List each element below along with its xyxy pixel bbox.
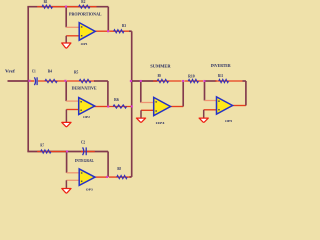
wire: derivative feedback right vertical bbox=[107, 81, 109, 107]
wire: OP2 output bbox=[94, 106, 108, 108]
svg-text:R6: R6 bbox=[114, 98, 119, 102]
wire: summer to inverter row bbox=[185, 80, 204, 82]
wire: proportional feedback right vertical bbox=[107, 7, 109, 32]
resistor R11 bbox=[219, 79, 229, 82]
wire: inverter feedback top to right vertical bbox=[243, 80, 246, 82]
svg-text:Vref: Vref bbox=[5, 68, 15, 73]
junction: OP3 output node bbox=[106, 176, 108, 178]
svg-text:DERIVATIVE: DERIVATIVE bbox=[72, 85, 97, 90]
op-amp OP5 bbox=[217, 97, 233, 114]
svg-text:R7: R7 bbox=[40, 143, 44, 147]
ground below OP4 bbox=[136, 118, 145, 122]
wire: OP3 output bbox=[95, 176, 109, 178]
svg-text:R5: R5 bbox=[74, 71, 78, 75]
wire: top row horizontal (R1/R2 node line) bbox=[27, 6, 108, 8]
wire: OP4 non-inverting input stub bbox=[141, 109, 154, 111]
wire: OP1 ground stem bbox=[65, 36, 67, 43]
wire: OP5 output bbox=[232, 105, 246, 107]
svg-text:R1: R1 bbox=[44, 0, 48, 4]
capacitor C1 bbox=[34, 77, 35, 85]
junction: Vref bus crossing bbox=[28, 80, 30, 82]
junction: R6 to collector bbox=[131, 105, 133, 107]
svg-text:INVERTER: INVERTER bbox=[211, 63, 232, 68]
svg-text:PROPORTIONAL: PROPORTIONAL bbox=[69, 11, 102, 16]
svg-text:R9: R9 bbox=[158, 74, 161, 78]
wire: OP5 non-inverting input stub bbox=[204, 109, 216, 111]
wire: OP2 inverting input branch bbox=[65, 81, 67, 101]
wire: integral feedback right vertical bbox=[107, 152, 109, 177]
wire: collector vertical (summing bus) bbox=[131, 31, 133, 177]
resistor R5 bbox=[79, 79, 91, 82]
wire: Vref horizontal bbox=[8, 80, 30, 82]
ground below OP1 bbox=[62, 43, 71, 48]
wire: OP1 output bbox=[95, 30, 109, 32]
svg-text:C2: C2 bbox=[81, 141, 85, 145]
op-amp OP3 bbox=[79, 169, 95, 186]
resistor R4 bbox=[45, 79, 57, 82]
resistor R3 bbox=[114, 30, 124, 33]
svg-text:OP1: OP1 bbox=[81, 42, 88, 46]
svg-text:SUMMER: SUMMER bbox=[150, 64, 171, 69]
resistor R7 bbox=[41, 150, 51, 153]
wire: integral top row horizontal bbox=[27, 151, 108, 153]
wire: OP3 ground stem bbox=[65, 180, 67, 188]
wire: OP4 inverting input branch bbox=[140, 81, 142, 103]
junction: integral input node bbox=[66, 150, 68, 152]
junction: R1/R2 node bbox=[65, 6, 67, 8]
wire: OP2 ground stem bbox=[65, 110, 67, 123]
junction: derivative input node bbox=[64, 80, 66, 82]
wire: main Vref bus vertical bbox=[27, 7, 29, 152]
resistor R9 bbox=[157, 79, 168, 82]
wire: red lead segments top row bbox=[37, 6, 65, 8]
wire: OP3 non-inverting input stub bbox=[66, 179, 79, 181]
svg-text:R4: R4 bbox=[48, 70, 52, 74]
wire: OP3 inverting input branch bbox=[66, 152, 68, 173]
wire: integral row red leads bbox=[37, 151, 66, 153]
wire: OP2 non-inverting input stub bbox=[66, 109, 79, 111]
wire: R8 row output to collector bbox=[109, 176, 131, 178]
wire: summer feedback vertical bbox=[182, 81, 184, 107]
junction: OP2 output node bbox=[107, 105, 109, 107]
resistor R6 bbox=[113, 105, 127, 108]
resistor R2 bbox=[79, 5, 90, 8]
op-amp OP2 bbox=[79, 98, 95, 115]
wire: R6 row output to collector bbox=[109, 106, 132, 108]
svg-text:C1: C1 bbox=[32, 69, 36, 73]
op-amp OP1 bbox=[79, 23, 95, 41]
junction: summer inverting node bbox=[140, 80, 142, 82]
capacitor C2 bbox=[83, 147, 84, 155]
junction: inverter input node bbox=[203, 80, 205, 82]
wire: OP4 ground stem bbox=[140, 110, 142, 118]
wire: OP5 ground stem bbox=[203, 110, 205, 118]
wire: OP1 inverting input branch bbox=[65, 7, 67, 28]
op-amp OP4 bbox=[154, 97, 171, 115]
ground below OP5 bbox=[199, 118, 208, 122]
junction: summer output node bbox=[182, 80, 184, 82]
wire: inverter feedback right vertical bbox=[245, 81, 247, 106]
wire: OP1 non-inverting input stub bbox=[66, 35, 80, 37]
svg-text:R8: R8 bbox=[117, 167, 121, 171]
wire: R3 row output to collector bbox=[109, 30, 129, 32]
wire: derivative R5 segment bbox=[67, 80, 95, 82]
svg-text:R2: R2 bbox=[81, 0, 85, 4]
wire: OP4 output bbox=[170, 106, 183, 108]
junction: collector to summer branch bbox=[130, 80, 132, 82]
wire: OP5 inverting input branch bbox=[204, 81, 206, 101]
svg-text:OP5: OP5 bbox=[225, 119, 232, 123]
svg-text:OP4: OP4 bbox=[156, 121, 165, 125]
svg-text:INTEGRAL: INTEGRAL bbox=[75, 158, 94, 163]
ground below OP2 bbox=[62, 122, 71, 126]
svg-text:OP3: OP3 bbox=[86, 188, 93, 192]
svg-text:OP2: OP2 bbox=[83, 115, 90, 119]
svg-text:R11: R11 bbox=[218, 74, 223, 78]
junction: OP1 output node bbox=[107, 30, 109, 32]
resistor R1 bbox=[42, 5, 53, 8]
wire: derivative input row red segments bbox=[30, 80, 34, 82]
svg-text:R3: R3 bbox=[122, 24, 126, 28]
resistor R8 bbox=[117, 175, 128, 178]
svg-text:R10: R10 bbox=[188, 75, 195, 79]
resistor R10 bbox=[188, 79, 198, 82]
ground below OP3 bbox=[62, 189, 71, 194]
wire: summer node row horizontal bbox=[132, 80, 157, 82]
